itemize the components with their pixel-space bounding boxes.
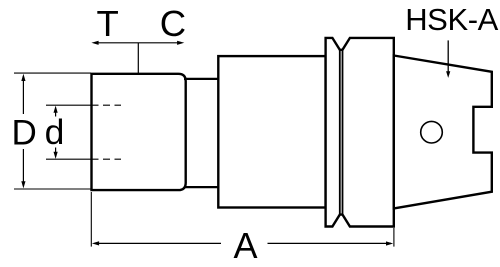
svg-text:C: C: [160, 3, 186, 44]
neck bottom edge: [184, 186, 219, 188]
D dimension arrow up: [21, 74, 25, 114]
groove bottom line right: [342, 50, 344, 215]
d lower extension line: [46, 158, 91, 160]
bore dashed line upper: [92, 104, 122, 106]
body: main cylinder: [218, 56, 325, 207]
A dimension line left segment: [92, 241, 221, 245]
A right extension line: [393, 228, 395, 247]
HSK-A pointer arrow: [446, 40, 450, 78]
D upper extension line: [14, 72, 91, 74]
D dimension arrow down: [21, 149, 25, 188]
drive slot hole circle: [421, 121, 443, 143]
A left extension line: [90, 192, 92, 247]
neck top edge: [184, 78, 219, 80]
body: chuck nose (left cylinder): [92, 74, 186, 190]
svg-text:d: d: [45, 112, 65, 152]
flange with gripper groove: [326, 38, 394, 227]
T/C divider tick: [137, 43, 139, 74]
groove bottom line left: [339, 50, 341, 215]
svg-text:T: T: [96, 3, 118, 44]
svg-text:D: D: [12, 113, 37, 152]
d dimension arrow up: [54, 106, 58, 117]
svg-text:A: A: [233, 225, 257, 266]
d dimension arrow down: [54, 148, 58, 159]
T/C dimension line with outward arrows: [91, 41, 184, 45]
svg-text:HSK-A: HSK-A: [405, 2, 498, 37]
A dimension line right segment: [268, 241, 394, 245]
d upper extension line: [46, 104, 91, 106]
bore dashed line lower: [92, 158, 122, 160]
HSK taper shank: [394, 56, 492, 209]
D lower extension line: [14, 188, 91, 190]
